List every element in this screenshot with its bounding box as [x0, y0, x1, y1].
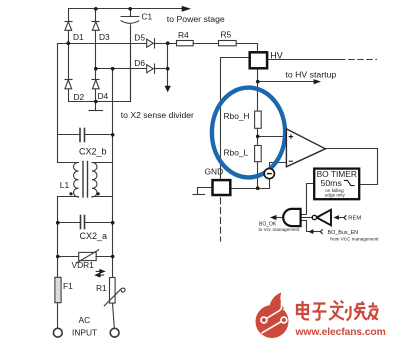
svg-text:C1: C1: [142, 12, 153, 22]
svg-text:R4: R4: [178, 30, 189, 40]
svg-text:VDR1: VDR1: [72, 260, 95, 270]
svg-text:INPUT: INPUT: [72, 328, 97, 338]
svg-text:D6: D6: [134, 58, 145, 68]
svg-text:L1: L1: [60, 180, 70, 190]
svg-text:AC: AC: [79, 315, 91, 325]
svg-text:to X2 sense divider: to X2 sense divider: [121, 110, 194, 120]
svg-text:D5: D5: [134, 32, 145, 42]
svg-text:Rbo_L: Rbo_L: [224, 147, 249, 157]
svg-text:Rbo_H: Rbo_H: [224, 111, 250, 121]
svg-text:D1: D1: [73, 32, 84, 42]
svg-text:D2: D2: [74, 92, 85, 102]
svg-text:from VCC management: from VCC management: [330, 236, 379, 241]
svg-text:GND: GND: [205, 167, 224, 177]
svg-text:to Vcc management: to Vcc management: [259, 227, 301, 232]
svg-text:D3: D3: [99, 32, 110, 42]
svg-text:to HV startup: to HV startup: [286, 70, 337, 80]
svg-text:CX2_b: CX2_b: [79, 146, 107, 156]
svg-text:F1: F1: [63, 281, 73, 291]
svg-text:R1: R1: [96, 283, 107, 293]
svg-text:50ms: 50ms: [321, 178, 343, 188]
svg-text:CX2_a: CX2_a: [80, 231, 108, 241]
svg-text:D4: D4: [98, 91, 109, 101]
svg-text:HV: HV: [270, 51, 283, 61]
svg-text:REM: REM: [348, 216, 361, 222]
svg-text:to Power stage: to Power stage: [167, 14, 225, 24]
svg-text:BO_Bus_EN: BO_Bus_EN: [328, 230, 359, 236]
svg-text:edge only: edge only: [325, 193, 346, 198]
svg-text:R5: R5: [221, 30, 232, 40]
svg-text:www.elecfans.com: www.elecfans.com: [295, 327, 386, 338]
